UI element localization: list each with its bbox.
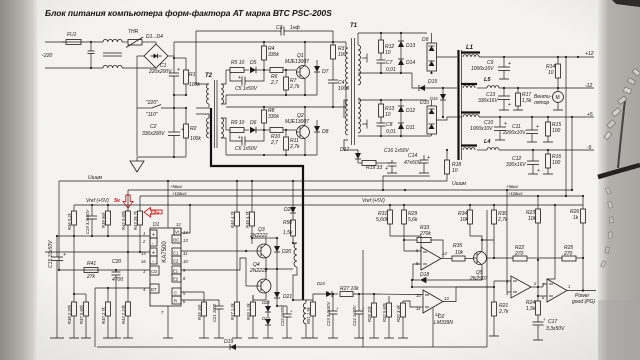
resistor R5 10 (226, 60, 249, 73)
op-amp comparator D2.3 (537, 279, 596, 302)
diode D15 (412, 73, 457, 91)
node Power good (PG) (572, 293, 595, 305)
svg-text:+: + (508, 61, 511, 67)
svg-text:"110": "110" (146, 112, 158, 118)
svg-text:C8: C8 (386, 122, 393, 128)
svg-text:Vr: Vr (175, 230, 180, 235)
svg-text:16: 16 (141, 259, 146, 264)
resistor R50 1,5k (283, 220, 296, 243)
resistor R45 15k (197, 292, 209, 338)
svg-text:D21: D21 (283, 294, 292, 300)
svg-text:13: 13 (444, 296, 449, 301)
svg-text:13: 13 (183, 238, 188, 243)
svg-text:FU1: FU1 (67, 32, 77, 38)
svg-text:R: R (174, 299, 177, 304)
svg-text:2,7k: 2,7k (289, 84, 300, 90)
svg-text:D24: D24 (317, 281, 325, 286)
capacitor C24 1x50V (352, 293, 365, 338)
svg-text:+: + (238, 75, 241, 81)
svg-text:C14: C14 (408, 153, 417, 159)
svg-text:R9 10: R9 10 (231, 120, 245, 126)
svg-text:R41: R41 (87, 261, 96, 267)
resistor R8 330k (262, 107, 280, 130)
resistor R34 10k (458, 205, 483, 241)
svg-text:1: 1 (143, 231, 145, 236)
svg-text:Uшим: Uшим (88, 175, 103, 181)
resistor R47 1,5k (230, 302, 242, 338)
svg-text:L5: L5 (484, 77, 491, 83)
svg-text:12: 12 (176, 222, 181, 227)
resistor R7 2,7k (284, 69, 300, 95)
wire comparator box border (362, 250, 364, 347)
svg-text:1000: 1000 (338, 86, 349, 92)
svg-text:Vref (+5V): Vref (+5V) (362, 198, 385, 204)
resistor R25 270 (538, 245, 584, 261)
resistor R32 5,60k (382, 296, 394, 338)
wire AC line bottom (45, 67, 103, 69)
resistor R18 10 (445, 149, 462, 181)
resistor R24 1,5k (526, 260, 541, 322)
svg-text:15: 15 (141, 251, 146, 256)
resistor R31 5,60k (376, 205, 393, 236)
svg-text:1k: 1k (573, 215, 579, 221)
capacitor C5 1x50V (230, 70, 264, 92)
svg-text:D12: D12 (406, 108, 415, 114)
resistor R16 100 (543, 150, 561, 174)
diode D12 (398, 100, 415, 120)
svg-text:3,3x50V: 3,3x50V (546, 326, 565, 332)
svg-text:E1: E1 (173, 269, 179, 274)
bridge rectifier D1...D4 (137, 34, 174, 68)
diode D18 (420, 272, 474, 283)
svg-text:good (PG): good (PG) (572, 299, 595, 305)
resistor R36 5,2k (67, 205, 77, 236)
svg-text:R2: R2 (190, 126, 197, 132)
transformer T1 (344, 23, 367, 150)
capacitor C4 1000 (328, 80, 349, 107)
svg-text:10: 10 (452, 168, 458, 174)
capacitor C2 330x200V (142, 124, 184, 157)
transistor Q5 2N2907 (469, 240, 494, 282)
resistor R38 2,20k (67, 236, 79, 338)
IC D1 KA7500 (141, 222, 188, 338)
svg-text:~220: ~220 (41, 53, 52, 59)
resistor R30 2,7k (492, 205, 508, 259)
resistor R44 2,24k (121, 252, 133, 338)
svg-text:2,7k: 2,7k (497, 217, 508, 223)
resistor R6 2,7 (270, 68, 296, 87)
svg-text:C16 1x50V: C16 1x50V (384, 148, 409, 154)
inductor L1 multi-winding choke (459, 45, 481, 160)
wire secondary bottom tap (358, 99, 427, 101)
wire bottom rail primary (137, 156, 186, 158)
wire left border vertical (58, 181, 60, 270)
svg-text:2,7: 2,7 (270, 140, 278, 146)
svg-text:D11: D11 (406, 125, 415, 131)
op-amp main comparator D2.1 (375, 279, 495, 347)
diode D6 (250, 120, 270, 133)
wire IC E pins join (181, 258, 246, 286)
svg-text:27k: 27k (86, 274, 96, 280)
resistor R3 100 (331, 31, 347, 80)
svg-text:E2: E2 (173, 277, 179, 282)
annotation red 12v arrow (144, 208, 162, 218)
resistor R46 4,7k (230, 181, 240, 302)
svg-text:100k: 100k (189, 82, 200, 88)
wire bottom ground bus (97, 346, 487, 348)
diode D19 (224, 339, 236, 350)
svg-text:2,7: 2,7 (270, 80, 278, 86)
wire +12vyh bus (140, 195, 583, 197)
svg-text:2200x10V: 2200x10V (502, 130, 526, 136)
resistor R39 56k (101, 205, 111, 236)
wire Uшим bus (59, 180, 447, 182)
wire box right edge (486, 210, 488, 347)
fuse FU1 (62, 32, 85, 45)
svg-text:C3: C3 (276, 25, 283, 31)
resistor R41 27k (84, 261, 98, 280)
svg-text:L1: L1 (466, 45, 474, 51)
svg-text:100: 100 (552, 160, 561, 166)
svg-text:T2: T2 (205, 73, 213, 79)
svg-text:2,7k: 2,7k (289, 144, 300, 150)
svg-text:C7: C7 (386, 60, 393, 66)
resistor R21 2,7k (489, 287, 509, 336)
svg-text:D18: D18 (420, 272, 429, 278)
svg-text:D19: D19 (224, 339, 233, 345)
svg-text:D10: D10 (420, 100, 429, 106)
svg-text:100: 100 (552, 128, 561, 134)
capacitor C21 1000 (181, 300, 224, 338)
capacitor C11 2200x10V (502, 117, 539, 142)
photo: metallic chain lower (600, 187, 613, 267)
svg-text:+: + (504, 121, 507, 127)
resistor R17 1,5k (513, 88, 532, 110)
svg-text:+12: +12 (585, 51, 594, 57)
transformer T2 (196, 70, 226, 155)
resistor R14 10 (546, 57, 561, 91)
diode D25 (284, 181, 296, 220)
resistor R26 1k (570, 195, 586, 258)
svg-text:C19 3,3x50V: C19 3,3x50V (85, 209, 90, 234)
wire AC line top (45, 41, 65, 43)
svg-text:1нф: 1нф (290, 25, 301, 31)
resistor R48 4,7k (245, 181, 255, 244)
svg-text:C17: C17 (548, 319, 557, 325)
capacitor C6 1x50V (230, 130, 264, 152)
capacitor C13 330x16V (478, 88, 511, 110)
svg-text:D8: D8 (322, 129, 329, 135)
svg-text:10: 10 (385, 50, 391, 56)
svg-text:C22 1x50V: C22 1x50V (280, 304, 285, 326)
svg-text:L4: L4 (484, 139, 490, 145)
svg-text:5v: 5v (114, 198, 121, 204)
thermistor THR (126, 29, 156, 48)
diode D16 (430, 87, 446, 118)
svg-text:+12вых: +12вых (172, 191, 187, 196)
wire top DC rail to T1 (174, 41, 346, 43)
wire IC input row (57, 235, 150, 237)
wire thick emphasized feedback (211, 108, 303, 300)
svg-text:10: 10 (385, 112, 391, 118)
resistor R35 10k (441, 243, 474, 261)
svg-text:+: + (508, 102, 511, 108)
wire mid node (174, 94, 186, 96)
svg-text:+: + (63, 252, 66, 258)
svg-text:D1...D4: D1...D4 (146, 34, 163, 40)
capacitor C14 47x50V (404, 153, 430, 173)
resistor R51 1,5k (292, 299, 318, 338)
capacitor C17 3,3x50V (533, 317, 566, 340)
svg-text:D7: D7 (322, 69, 329, 75)
svg-text:C24 1x50V: C24 1x50V (352, 304, 357, 326)
svg-text:D9: D9 (422, 37, 429, 43)
diode D24 (313, 281, 338, 300)
wire secondary top tap (358, 32, 427, 34)
svg-text:1000x16V: 1000x16V (471, 66, 494, 72)
svg-text:C5 1x50V: C5 1x50V (235, 86, 258, 92)
svg-text:THR: THR (128, 29, 139, 35)
right photo background (598, 0, 640, 360)
wire emitter rail upper (264, 94, 317, 96)
capacitor C16 1x50V (384, 148, 409, 173)
svg-text:+: + (177, 67, 180, 73)
svg-text:C15 10x50V: C15 10x50V (48, 240, 54, 268)
resistor R2 100k (184, 94, 202, 157)
photo: metallic chain upper diagonal (604, 69, 640, 140)
svg-text:1000x10V: 1000x10V (470, 126, 493, 132)
svg-text:C6 1x50V: C6 1x50V (235, 146, 258, 152)
svg-text:T1: T1 (350, 23, 358, 29)
svg-text:+: + (537, 168, 540, 174)
wire upper stage bottom rail (226, 94, 264, 96)
wire mid rail y107 (226, 106, 346, 108)
svg-text:KA7500: KA7500 (162, 241, 168, 263)
capacitor C22 1x50V (276, 304, 293, 338)
svg-text:лятор: лятор (533, 100, 549, 106)
resistor R12 10 (379, 32, 395, 58)
svg-text:14: 14 (183, 230, 188, 235)
capacitor X-cap input (88, 41, 95, 69)
capacitor C23 3,3x50V (326, 293, 339, 338)
svg-text:-5: -5 (587, 145, 592, 151)
wire bridge plus node up to top rail (173, 42, 175, 56)
svg-text:D20: D20 (282, 249, 291, 255)
photo: lower shade (598, 300, 640, 360)
svg-text:D5: D5 (250, 60, 257, 66)
resistor R19 33 (358, 161, 392, 172)
wire secondary return lower (358, 135, 431, 137)
IC label D2 LM339N (434, 314, 453, 326)
capacitor C12 330x16V (506, 150, 540, 174)
inductor L5 (477, 77, 594, 88)
svg-text:4700: 4700 (112, 277, 123, 283)
resistor R43 28,7k (133, 196, 143, 252)
resistor R20 3,9k (396, 301, 408, 338)
capacitor C3 1nf coupling (196, 25, 333, 36)
diode D14 (398, 56, 415, 73)
svg-text:+5вых: +5вых (506, 184, 519, 189)
svg-text:R50: R50 (283, 220, 292, 226)
svg-text:10: 10 (548, 70, 554, 76)
op-amp comparator D2.2 (494, 276, 543, 298)
wire secondary return upper (358, 72, 412, 74)
wire feedback to IC pin top (167, 181, 169, 228)
svg-text:R5 10: R5 10 (231, 60, 245, 66)
wire pin5 row (181, 291, 204, 293)
svg-text:D16: D16 (430, 96, 438, 101)
svg-text:+5: +5 (587, 112, 593, 118)
svg-text:5,6k: 5,6k (408, 217, 418, 223)
svg-text:LM339N: LM339N (434, 320, 453, 326)
svg-text:"220": "220" (146, 100, 158, 106)
resistor R15 100 (543, 117, 561, 142)
switch 220/110 (137, 100, 187, 118)
svg-text:330x16V: 330x16V (506, 162, 526, 168)
rectifier D9 (422, 33, 457, 74)
resistor R40 2,7k (101, 288, 113, 338)
svg-text:Vref (+5V): Vref (+5V) (86, 198, 109, 204)
svg-text:+: + (427, 155, 430, 161)
resistor R28 10k (367, 293, 379, 338)
svg-text:330k: 330k (268, 52, 279, 58)
resistor R22 270 (494, 245, 538, 261)
svg-text:D1: D1 (153, 222, 160, 228)
op-amp error amp (390, 236, 447, 280)
svg-text:-12: -12 (585, 83, 592, 89)
transistor Q4 2N2222 (246, 262, 271, 300)
wire IC row pin15 (45, 251, 150, 253)
svg-text:330x16V: 330x16V (478, 98, 498, 104)
svg-text:0,01: 0,01 (386, 129, 396, 135)
svg-text:10: 10 (416, 293, 421, 298)
diode D8 (314, 120, 329, 155)
svg-text:+12вых: +12вых (508, 191, 523, 196)
photo: cable thin stick (618, 100, 625, 168)
svg-text:10k: 10k (455, 250, 464, 256)
diode D22 (262, 300, 271, 317)
transistor Q1 MJE13007 (285, 41, 310, 95)
diode D17 (340, 147, 361, 163)
rectifier D10 (420, 100, 462, 136)
diode D11 (398, 120, 415, 136)
svg-text:C2: C2 (173, 259, 179, 264)
svg-text:Блок питания компьютера форм-ф: Блок питания компьютера форм-фактора АТ … (45, 8, 332, 18)
resistor R37 5,60k (73, 293, 91, 338)
svg-text:C20: C20 (112, 259, 121, 265)
svg-text:1,5k: 1,5k (526, 306, 536, 312)
resistor R23 10k (526, 195, 541, 261)
wire Vref from IC pin 14 (181, 205, 190, 233)
capacitor C19 3,3x50V (85, 205, 97, 236)
photo: black cable arc (598, 165, 640, 177)
annotation red 5v arrow (114, 195, 133, 208)
svg-text:2N2907: 2N2907 (469, 276, 488, 282)
svg-text:14: 14 (442, 251, 447, 256)
wire +5vyh bus (128, 189, 572, 191)
svg-text:+: + (536, 124, 539, 130)
capacitor C20 4700 (111, 259, 123, 338)
svg-text:1: 1 (568, 284, 570, 289)
svg-text:R35: R35 (453, 243, 462, 249)
resistor R49 1,5k (246, 295, 258, 338)
svg-text:C1: C1 (173, 251, 179, 256)
wire pin3 row CO (59, 269, 150, 271)
svg-text:D13: D13 (406, 43, 415, 49)
diode D23 (262, 316, 273, 338)
diode D21 (274, 269, 292, 306)
svg-text:10: 10 (183, 259, 188, 264)
photo: dark band top right corner (612, 0, 640, 7)
resistor R4 330k (262, 41, 280, 70)
wire IC C1 pin to Q3 base (181, 250, 246, 252)
transformer T3 winding lower (301, 300, 311, 338)
wire fuse to filter (85, 41, 103, 43)
wire emitter junction (266, 268, 293, 270)
inductor L4 (477, 139, 594, 150)
svg-text:D14: D14 (406, 60, 415, 66)
wire +5 rail (479, 116, 594, 118)
wire C3 left leg down to T2 (196, 31, 209, 84)
diode D20 (266, 237, 291, 269)
left grey edge bar (0, 0, 38, 360)
resistor R10 2,7 (270, 128, 296, 147)
wire Vref bus (74, 204, 583, 206)
svg-text:C2: C2 (150, 124, 157, 130)
svg-text:D6: D6 (250, 120, 257, 126)
svg-text:1,5k: 1,5k (283, 230, 293, 236)
svg-text:1,5k: 1,5k (522, 98, 532, 104)
inductor L common-mode choke (103, 39, 156, 68)
ground primary (open triangle) (130, 157, 144, 172)
wire +12 rail (479, 56, 594, 58)
svg-text:+: + (385, 166, 388, 172)
svg-text:330k: 330k (268, 114, 279, 120)
svg-text:R1: R1 (189, 72, 196, 78)
svg-text:Uшим: Uшим (452, 181, 467, 187)
resistor R42 5,60k (121, 190, 131, 252)
svg-text:MJE13007: MJE13007 (285, 59, 309, 65)
wire box left lower (94, 288, 96, 347)
svg-text:220x200V: 220x200V (148, 69, 172, 75)
capacitor C1 220x200V (148, 56, 180, 95)
resistor R29 5,6k (402, 205, 418, 251)
svg-text:330x200V: 330x200V (142, 131, 165, 137)
diode D7 (314, 60, 329, 95)
capacitor C15 10x50V (48, 236, 66, 338)
diode D13 (398, 32, 415, 56)
svg-text:OC: OC (173, 238, 179, 243)
svg-text:D22: D22 (262, 300, 270, 305)
capacitor C10 1000x10V (470, 117, 507, 140)
svg-text:D15: D15 (428, 79, 437, 85)
svg-text:+: + (238, 135, 241, 141)
svg-text:+5вых: +5вых (170, 184, 183, 189)
resistor R27 10k (340, 286, 375, 297)
wire +5 feedback drop (571, 117, 573, 190)
wire bridge minus rail down (136, 56, 138, 156)
wire C1-C2 column (173, 95, 175, 132)
svg-text:DT: DT (151, 287, 157, 292)
capacitor C9 1000x16V (471, 57, 511, 79)
resistor R33 270k (403, 225, 443, 258)
resistor R1 100k (173, 57, 200, 95)
wire pin4 row DT (95, 287, 150, 289)
capacitor C8 0,01 (377, 121, 396, 136)
svg-text:2,7k: 2,7k (498, 309, 509, 315)
diode D5 (250, 60, 270, 73)
wire R26 to PG (582, 258, 584, 291)
